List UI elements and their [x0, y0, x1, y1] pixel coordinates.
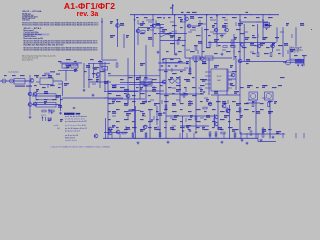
- wire h31: [58, 69, 78, 71]
- junction d7: [206, 14, 207, 15]
- IC pin L4: [205, 83, 211, 85]
- label ex67: [92, 72, 96, 75]
- wire h18: [102, 59, 117, 61]
- wire jog5: [200, 23, 206, 25]
- wire jog31: [287, 50, 289, 54]
- transistor Q9: [271, 44, 275, 48]
- ground gnd8: [137, 141, 140, 144]
- label val17: [170, 35, 175, 37]
- label ex188: [108, 128, 113, 131]
- label ex159: [180, 108, 183, 111]
- label ex46: [214, 52, 218, 55]
- label val71: [186, 125, 191, 127]
- transistor Q23: [108, 127, 112, 131]
- label ex86: [152, 78, 157, 81]
- transistor Q21: [200, 57, 204, 61]
- transistor Q4: [185, 17, 189, 21]
- label ex81: [96, 76, 99, 79]
- junction db5: [217, 138, 218, 139]
- wire jog52: [176, 99, 180, 101]
- label val69: [154, 127, 157, 129]
- label ex124: [156, 92, 160, 95]
- transistor Q5: [187, 24, 191, 28]
- box flat filter box: [163, 59, 180, 63]
- label val52: [222, 101, 226, 103]
- label ex6: [210, 16, 213, 19]
- label val0: [110, 21, 113, 23]
- wire jog63: [185, 118, 187, 122]
- cross wire pair: [160, 31, 174, 37]
- label val59: [174, 115, 179, 117]
- label val5: [162, 29, 167, 31]
- wire h0: [240, 21, 268, 23]
- wire jog34: [92, 67, 96, 69]
- label val61: [206, 115, 210, 117]
- wire jog22: [257, 34, 259, 38]
- ground gnd7: [167, 141, 170, 144]
- transistor Q22: [94, 134, 98, 138]
- wire jog72: [202, 125, 206, 127]
- label ex84: [136, 78, 139, 81]
- label ex94: [42, 86, 46, 89]
- label ex101: [152, 86, 157, 89]
- label ex69: [108, 72, 111, 75]
- svg-text:А1-ФГ1/ФГ2: А1-ФГ1/ФГ2: [64, 1, 115, 11]
- label ex30: [252, 34, 255, 37]
- junction db6: [239, 138, 240, 139]
- wire v5 x138: [137, 28, 139, 45]
- wire v39 x89: [88, 63, 90, 88]
- transistor Q17: [208, 102, 212, 106]
- transistor Q11: [238, 59, 242, 63]
- label ex147: [252, 100, 255, 103]
- wire jog6: [210, 19, 216, 21]
- label ex163: [212, 108, 216, 111]
- label ex192: [140, 128, 143, 131]
- box stab U2: [144, 79, 152, 86]
- label val58: [158, 113, 162, 115]
- label ex119: [116, 94, 121, 97]
- wire jog27: [222, 49, 226, 51]
- wire jog12: [199, 20, 201, 24]
- label ex180: [180, 120, 183, 123]
- label ex182: [196, 120, 201, 123]
- resistor R13: [215, 132, 217, 136]
- svg-text:na 4x kanala: na 4x kanala: [8, 72, 18, 74]
- resistor R1: [177, 40, 179, 44]
- capacitor C4: [163, 113, 165, 114]
- wire jog2: [156, 27, 162, 29]
- wire v6 x146: [145, 45, 147, 103]
- label ex199: [196, 126, 200, 129]
- svg-text:rev. 3a: rev. 3a: [77, 11, 99, 18]
- label ex90: [192, 76, 195, 79]
- wire jog26: [197, 50, 199, 54]
- wire jog58: [112, 115, 116, 117]
- label ex40: [266, 46, 270, 49]
- cap symbol round 1: [170, 79, 174, 83]
- wire rail segment a: [138, 27, 152, 29]
- capacitor C1: [161, 66, 163, 67]
- svg-text:obratka 4mOm: obratka 4mOm: [65, 139, 78, 142]
- wire jog43: [142, 85, 146, 87]
- wire jog68: [144, 125, 148, 127]
- resistor R11: [159, 132, 161, 136]
- ground gnd14: [29, 116, 32, 119]
- label ex169: [260, 108, 264, 111]
- junction db2: [159, 138, 160, 139]
- wire v9 x166: [165, 58, 167, 139]
- label ex165: [228, 108, 231, 111]
- label ex153: [132, 108, 135, 111]
- label ex70: [164, 70, 168, 73]
- label val13: [300, 23, 304, 25]
- wire v36 x30: [29, 75, 31, 115]
- wire jog37: [184, 67, 188, 69]
- box mod B2: [205, 56, 213, 60]
- label ex136: [156, 102, 160, 105]
- svg-text:DA1: DA1: [217, 79, 221, 82]
- resistor Rh12: [231, 46, 235, 48]
- wire jog4: [190, 29, 196, 31]
- wire jog41: [92, 83, 96, 85]
- resistor R10: [145, 133, 147, 137]
- resistor R9: [132, 133, 134, 137]
- ground gnd5: [83, 89, 86, 92]
- wire v8 x160: [159, 24, 161, 110]
- label ex164: [220, 110, 225, 113]
- label val44: [234, 91, 239, 93]
- wire v20 x227: [226, 69, 228, 95]
- resistor R18: [195, 116, 197, 120]
- label ex48: [238, 50, 241, 53]
- wire h11: [104, 132, 128, 134]
- rail label 0: [181, 11, 184, 14]
- label val39: [140, 87, 143, 89]
- label ex158: [172, 110, 177, 113]
- wire v45 x134.5: [134, 75, 136, 133]
- capacitor C8: [73, 108, 75, 109]
- label ex154: [140, 110, 144, 113]
- wire v24 x240: [239, 64, 241, 134]
- label ex1: [144, 16, 148, 19]
- svg-text:ФБ-ОР --- ВРУВ 3: ФБ-ОР --- ВРУВ 3: [24, 27, 42, 30]
- label ex25: [168, 32, 172, 35]
- ground gnd11: [260, 139, 263, 142]
- label val49: [172, 103, 176, 105]
- label val83: [66, 65, 71, 67]
- wire v54 x229.5: [229, 105, 231, 139]
- wire jog64: [200, 117, 204, 119]
- wire v0 x102: [101, 18, 103, 60]
- label val29: [214, 65, 219, 67]
- resistor Rh11: [223, 46, 227, 48]
- label ex75: [4, 74, 7, 77]
- svg-text:pri 4 po 2+3 4+7: pri 4 po 2+3 4+7: [65, 130, 80, 133]
- wire v30 x270: [269, 100, 271, 139]
- label ex89: [184, 78, 189, 81]
- label ex27: [208, 34, 211, 37]
- svg-text:pri utochnenii 4x 4x PP: pri utochnenii 4x 4x PP: [65, 120, 88, 123]
- wire v14 x196: [195, 56, 197, 112]
- label ex191: [132, 126, 137, 129]
- wire jog59: [127, 116, 129, 120]
- label ex122: [140, 92, 145, 95]
- label val75: [248, 127, 251, 129]
- wire h5: [60, 62, 82, 64]
- label ex98: [120, 86, 125, 89]
- transistor Q7: [225, 28, 229, 32]
- resistor R22: [262, 128, 264, 132]
- cap symbol round 2: [176, 79, 180, 83]
- transistor Q26: [214, 122, 218, 126]
- label ex35: [206, 46, 211, 49]
- transistor Q28: [28, 92, 32, 96]
- label ex168: [252, 110, 255, 113]
- junction db3: [165, 138, 166, 139]
- wire jog48: [112, 99, 116, 101]
- transistor Q2: [136, 29, 140, 33]
- label ex195: [164, 126, 167, 129]
- wire jog71: [187, 126, 189, 130]
- wire jog19: [210, 31, 214, 33]
- label ex137: [164, 100, 169, 103]
- junction d5: [184, 14, 185, 15]
- wire v18 x217: [216, 15, 218, 47]
- label val9: [212, 25, 215, 27]
- IC pin L2: [205, 75, 211, 77]
- selected part box: [264, 23, 270, 31]
- label ex18: [214, 22, 217, 25]
- label ex204: [236, 128, 239, 131]
- wire v50 x150: [149, 110, 151, 139]
- label ex4: [178, 16, 182, 19]
- label ex51: [278, 52, 281, 55]
- label ex20: [236, 28, 241, 31]
- wire v11 x180: [179, 76, 181, 103]
- wire v56 x140: [139, 75, 141, 99]
- wire v42 x160: [159, 110, 161, 139]
- wire jog20: [221, 34, 223, 38]
- label val3: [147, 28, 150, 30]
- label val23: [260, 43, 265, 45]
- wire v7 x153: [152, 15, 154, 47]
- bm small marks: [48, 119, 51, 122]
- label val48: [154, 103, 157, 105]
- label val74: [232, 129, 237, 131]
- label ex21: [252, 24, 255, 27]
- label ex58: [170, 58, 174, 61]
- wire v28 x263: [262, 15, 264, 40]
- label ex125: [164, 94, 169, 97]
- wire v31 x277: [276, 27, 278, 42]
- test-point cluster: [43, 110, 52, 122]
- wire h37: [213, 33, 226, 35]
- wire jog13: [224, 19, 228, 21]
- wire h1: [160, 40, 186, 42]
- wire jog51: [161, 100, 163, 104]
- wire v46 x124: [123, 34, 125, 48]
- wire hang3: [145, 133, 147, 138]
- rail label 3: [246, 11, 249, 14]
- label ex100: [144, 84, 148, 87]
- wire v51 x157: [156, 106, 158, 125]
- label val15: [126, 35, 129, 37]
- label val31: [246, 59, 250, 61]
- svg-text:do po 200 mv: do po 200 mv: [22, 60, 33, 62]
- label ex37: [230, 44, 234, 47]
- label val24: [272, 43, 275, 45]
- capacitor C7: [203, 92, 205, 93]
- label val54: [274, 101, 277, 103]
- wire v29 x272.5: [272, 43, 274, 52]
- label ex61: [194, 60, 198, 63]
- resistor Rh10: [297, 59, 301, 61]
- resistor R21: [165, 105, 167, 109]
- label val18: [178, 37, 181, 39]
- label ex103: [168, 86, 172, 89]
- label val6: [180, 19, 183, 21]
- IC pin R5: [228, 87, 232, 89]
- label ex179: [172, 118, 177, 121]
- label ex43: [178, 50, 182, 53]
- transistor Q6: [214, 28, 218, 32]
- label val64: [256, 111, 260, 113]
- label ex63: [246, 62, 249, 65]
- label ex15: [180, 26, 183, 29]
- resistor Rh16: [221, 132, 225, 134]
- label val85: [86, 65, 90, 67]
- wire v32 x283: [282, 27, 284, 57]
- label ex170: [268, 110, 273, 113]
- wire h3: [240, 60, 287, 62]
- wire h29: [108, 75, 160, 77]
- ground gnd9: [246, 142, 249, 145]
- wire hang9: [215, 133, 217, 138]
- label val40: [152, 89, 156, 91]
- label val50: [188, 103, 193, 105]
- wire v1 x108: [107, 80, 109, 138]
- resistor R16: [189, 68, 191, 72]
- label val27: [186, 61, 189, 63]
- label val32: [136, 77, 141, 79]
- label ex161: [196, 108, 201, 111]
- label ex72: [180, 70, 183, 73]
- label ex87: [168, 78, 171, 81]
- wire jog32: [64, 67, 68, 69]
- resistor Rh9: [291, 59, 295, 61]
- label ex22: [268, 24, 272, 27]
- label ex156: [156, 110, 159, 113]
- label ex45: [202, 50, 205, 53]
- wire h16: [108, 98, 145, 100]
- wire jog17: [175, 30, 177, 34]
- label ex149: [268, 100, 273, 103]
- wire v27 x257.7: [257, 24, 259, 52]
- label val26: [140, 63, 145, 65]
- label ex83: [128, 76, 133, 79]
- wire jog16: [150, 29, 154, 31]
- label ex117: [60, 98, 63, 101]
- svg-text:+CA-4OTT30BA4 KO4B KO4B7 T4BBA: +CA-4OTT30BA4 KO4B KO4B7 T4BBA3 KO4B+T4B…: [50, 145, 110, 148]
- wire hang6: [186, 133, 188, 138]
- connector X3 filled: [295, 59, 304, 64]
- label ex8: [232, 16, 237, 19]
- label val1: [120, 23, 124, 25]
- label ex151: [116, 108, 120, 111]
- wire jog60: [142, 115, 146, 117]
- IC pin R3: [228, 79, 232, 81]
- resistor R4: [231, 40, 233, 44]
- label ex176: [148, 120, 153, 123]
- box relay K1: [40, 78, 53, 85]
- label ex31: [264, 36, 268, 39]
- resistor R7: [101, 63, 103, 67]
- wire bottom rail step: [258, 141, 276, 143]
- wire v49 x135.4: [134, 106, 136, 139]
- label ex128: [192, 94, 197, 97]
- label ex33: [182, 44, 185, 47]
- junction db4: [195, 138, 196, 139]
- label ex142: [208, 102, 212, 105]
- label val93: [60, 119, 63, 121]
- wire jog56: [248, 99, 252, 101]
- wire hang17: [303, 133, 305, 138]
- wire v22 x236: [235, 58, 237, 90]
- bm highlight box: [64, 113, 75, 115]
- label ex150: [108, 110, 111, 113]
- label ex39: [254, 44, 257, 47]
- label val12: [286, 23, 289, 25]
- label val81: [44, 101, 47, 103]
- wire v12 x185: [184, 15, 186, 58]
- label val10: [222, 25, 226, 27]
- label ex105: [184, 86, 187, 89]
- label ex99: [136, 86, 139, 89]
- wire h33: [129, 84, 151, 86]
- ground gnd3: [221, 53, 224, 56]
- transistor Q20: [116, 130, 120, 134]
- capacitor C9: [151, 120, 153, 121]
- label ex14: [172, 24, 177, 27]
- power arrow arr4: [163, 17, 165, 19]
- svg-text:R11=R12=R13 2k2 Bxod: R11=R12=R13 2k2 Bxod: [24, 34, 42, 36]
- wire jog42: [115, 84, 117, 88]
- label val56: [126, 113, 131, 115]
- label val70: [170, 127, 174, 129]
- label val78: [36, 89, 39, 91]
- wire jog47: [198, 87, 202, 89]
- label val86: [94, 67, 99, 69]
- label ex114: [36, 98, 39, 101]
- label ex141: [200, 100, 203, 103]
- label ex110: [248, 84, 253, 87]
- wire jog7: [222, 25, 228, 27]
- wire v47 x105.4: [104, 118, 106, 139]
- wire v52 x182.4: [181, 116, 183, 139]
- label val16: [148, 37, 152, 39]
- wire h38: [188, 25, 200, 27]
- wire hang7: [193, 133, 195, 138]
- transistor Q10: [240, 43, 244, 47]
- label ex198: [188, 128, 191, 131]
- label ex115: [44, 98, 48, 101]
- wire hang14: [269, 133, 271, 138]
- label val11: [238, 23, 243, 25]
- label val28: [202, 61, 206, 63]
- wire bottom supply rail V-: [103, 137, 258, 139]
- IC pin L1: [205, 71, 211, 73]
